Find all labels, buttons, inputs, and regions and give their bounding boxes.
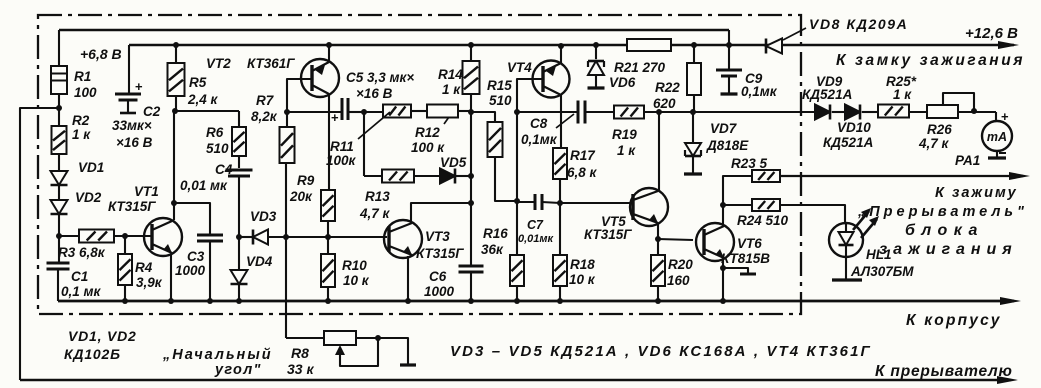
svg-text:+: + (331, 110, 339, 125)
svg-text:VD8 КД209А: VD8 КД209А (809, 16, 908, 32)
svg-text:зажигания: зажигания (879, 241, 1018, 258)
svg-text:КТ315Г: КТ315Г (416, 246, 464, 261)
svg-text:R1: R1 (74, 69, 91, 84)
svg-text:К прерывателю: К прерывателю (875, 363, 1013, 380)
svg-text:R17: R17 (570, 148, 596, 163)
svg-text:1 к: 1 к (893, 87, 912, 102)
svg-text:VT3: VT3 (425, 229, 450, 244)
svg-text:0,1 мк: 0,1 мк (61, 284, 102, 299)
svg-text:4,7 к: 4,7 к (359, 206, 391, 221)
svg-text:C7: C7 (527, 218, 544, 232)
svg-text:R9: R9 (297, 173, 315, 188)
svg-text:C2: C2 (143, 104, 161, 119)
svg-text:×16 В: ×16 В (356, 86, 393, 101)
svg-text:R16: R16 (483, 226, 508, 241)
svg-text:угол": угол" (214, 362, 262, 378)
svg-text:VD3: VD3 (250, 209, 277, 224)
svg-text:10 к: 10 к (569, 272, 596, 287)
svg-text:3,9к: 3,9к (136, 275, 163, 290)
svg-text:100: 100 (74, 85, 97, 100)
svg-text:2,4 к: 2,4 к (187, 92, 219, 107)
svg-text:КД521А: КД521А (802, 87, 852, 102)
svg-text:R14: R14 (438, 67, 463, 82)
svg-text:1000: 1000 (424, 284, 455, 299)
svg-text:R20: R20 (668, 257, 693, 272)
svg-text:510: 510 (489, 93, 512, 108)
svg-text:6,8 к: 6,8 к (567, 165, 598, 180)
svg-text:VD10: VD10 (837, 120, 871, 135)
svg-text:КТ315Г: КТ315Г (584, 227, 632, 242)
svg-text:„Прерыватель": „Прерыватель" (857, 204, 1028, 220)
svg-text:VD5: VD5 (440, 155, 467, 170)
svg-text:R6: R6 (206, 125, 224, 140)
svg-text:×16 В: ×16 В (116, 135, 153, 150)
svg-text:1000: 1000 (175, 263, 206, 278)
svg-text:20к: 20к (289, 189, 313, 204)
svg-text:C3: C3 (187, 249, 205, 264)
svg-text:КТ361Г: КТ361Г (247, 56, 295, 71)
svg-text:VD1: VD1 (78, 160, 104, 175)
svg-text:+: + (1001, 109, 1009, 124)
svg-text:VT4: VT4 (507, 60, 532, 75)
svg-text:10 к: 10 к (343, 273, 370, 288)
svg-text:510: 510 (206, 141, 229, 156)
svg-text:VD3 – VD5 КД521А , VD6 КС16: VD3 – VD5 КД521А , VD6 КС168А , VT4 КТ36… (450, 343, 872, 360)
svg-text:+6,8 В: +6,8 В (80, 46, 122, 62)
svg-text:1 к: 1 к (72, 127, 91, 142)
svg-text:R13: R13 (365, 189, 390, 204)
svg-text:VD7: VD7 (710, 121, 738, 136)
svg-text:R22: R22 (655, 80, 680, 95)
svg-text:КТ815В: КТ815В (721, 251, 770, 266)
svg-text:R5: R5 (189, 75, 207, 90)
svg-text:C5 3,3 мк×: C5 3,3 мк× (346, 70, 414, 85)
svg-text:+: + (135, 79, 143, 94)
svg-text:R12: R12 (415, 125, 440, 140)
svg-text:C1: C1 (71, 269, 88, 284)
svg-text:R19: R19 (612, 127, 637, 142)
svg-text:1 к: 1 к (442, 82, 461, 97)
svg-text:33 к: 33 к (287, 361, 314, 377)
svg-text:VT2: VT2 (206, 56, 231, 71)
svg-text:C8: C8 (530, 116, 548, 131)
svg-text:Д818Е: Д818Е (706, 138, 749, 153)
svg-text:0,1мк: 0,1мк (741, 84, 778, 99)
svg-text:mA: mA (987, 130, 1007, 144)
svg-text:160: 160 (667, 273, 690, 288)
svg-text:PA1: PA1 (955, 153, 980, 168)
svg-text:VD1, VD2: VD1, VD2 (68, 328, 137, 344)
svg-text:C6: C6 (429, 269, 447, 284)
svg-text:100 к: 100 к (411, 140, 445, 155)
svg-text:R26: R26 (927, 122, 952, 137)
svg-text:АЛ307БМ: АЛ307БМ (850, 264, 914, 279)
svg-text:КД521А: КД521А (823, 135, 873, 150)
svg-text:+12,6 В: +12,6 В (965, 25, 1018, 42)
svg-text:0,01 мк: 0,01 мк (180, 178, 228, 193)
svg-text:КТ315Г: КТ315Г (108, 199, 156, 214)
svg-text:R24 510: R24 510 (737, 213, 789, 228)
svg-text:8,2к: 8,2к (251, 109, 278, 124)
svg-text:КД102Б: КД102Б (64, 346, 121, 362)
svg-text:33мк×: 33мк× (112, 118, 152, 133)
svg-text:К корпусу: К корпусу (906, 312, 1002, 329)
svg-text:R2: R2 (72, 113, 90, 128)
svg-text:36к: 36к (481, 242, 504, 257)
svg-text:R23 5: R23 5 (731, 156, 768, 171)
svg-text:К замку зажигания: К замку зажигания (836, 52, 1025, 69)
svg-text:R8: R8 (291, 345, 309, 361)
svg-text:R4: R4 (135, 260, 153, 275)
svg-text:VD2: VD2 (75, 190, 102, 205)
svg-text:R11: R11 (330, 139, 354, 154)
svg-text:100к: 100к (326, 153, 357, 168)
svg-text:блока: блока (905, 222, 984, 239)
svg-text:R7: R7 (256, 93, 275, 108)
svg-text:4,7 к: 4,7 к (918, 136, 950, 151)
svg-text:К зажиму: К зажиму (935, 185, 1018, 201)
svg-text:VT1: VT1 (134, 184, 159, 199)
svg-text:C4: C4 (215, 162, 233, 177)
svg-text:1 к: 1 к (617, 143, 636, 158)
svg-text:VT6: VT6 (737, 236, 762, 251)
svg-text:R3 6,8к: R3 6,8к (58, 245, 106, 260)
svg-text:0,1мк: 0,1мк (521, 132, 558, 147)
svg-text:620: 620 (653, 96, 676, 111)
svg-text:„Начальный: „Начальный (162, 347, 273, 363)
svg-text:R10: R10 (342, 258, 367, 273)
svg-text:0,01мк: 0,01мк (518, 233, 555, 245)
svg-text:VD4: VD4 (246, 254, 273, 269)
svg-text:R18: R18 (570, 257, 595, 272)
svg-text:R21 270: R21 270 (614, 60, 666, 75)
svg-text:R15: R15 (487, 78, 512, 93)
svg-text:VD6: VD6 (609, 75, 636, 90)
